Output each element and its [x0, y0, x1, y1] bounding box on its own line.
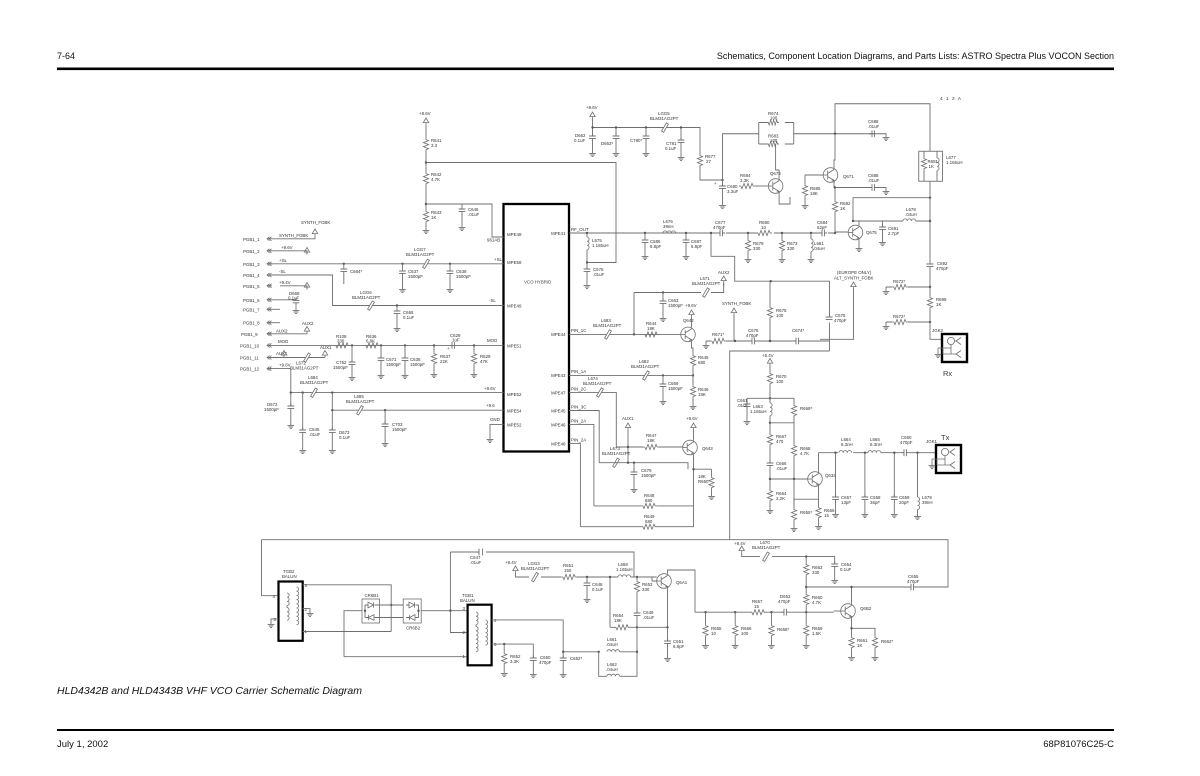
- ground (D662): [589, 151, 596, 157]
- capacitor C665: [396, 304, 398, 306]
- svg-text:+9.4V: +9.4V: [279, 280, 291, 285]
- ferrite bead L685: [357, 406, 364, 415]
- capacitor C657: [834, 452, 836, 454]
- node junction: [449, 263, 451, 265]
- wire Q633 collector to Tx row: [818, 453, 820, 472]
- svg-text:330: 330: [812, 570, 820, 575]
- svg-text:18K: 18K: [698, 392, 706, 397]
- wire R684 to Q678: [755, 185, 768, 187]
- wire Q6A1 collector right to lower row: [668, 570, 696, 612]
- transistor Q6B2: [841, 604, 856, 619]
- ground (R652): [501, 671, 508, 677]
- svg-text:D663*: D663*: [601, 141, 613, 146]
- wire oscillator top bus: [262, 540, 949, 596]
- wire diode links: [380, 605, 404, 618]
- svg-text:C674*: C674*: [792, 328, 804, 333]
- capacitor C653 series: [781, 609, 789, 616]
- resistor R629: [473, 345, 475, 352]
- transistor Q633: [808, 472, 823, 487]
- svg-text:AUX1: AUX1: [320, 345, 332, 350]
- capacitor C692 series: [927, 261, 949, 287]
- wire bias node up to R674/R683 box: [723, 134, 759, 180]
- wire TGB1 pin 5 row: [492, 643, 534, 645]
- resistor R637: [433, 345, 435, 352]
- ground (C665): [394, 326, 401, 332]
- svg-text:BLM31AG2PT: BLM31AG2PT: [631, 364, 660, 369]
- svg-text:.01uF: .01uF: [776, 466, 788, 471]
- transistor Q678: [768, 179, 783, 194]
- capacitor C658: [864, 452, 866, 454]
- wire TGB1 pin 4 to row: [492, 620, 564, 652]
- capacitor C680 polarized: [721, 179, 723, 181]
- svg-text:1500pF: 1500pF: [408, 274, 423, 279]
- capacitor C762: [351, 345, 353, 362]
- wire R677 to bias node: [700, 167, 723, 180]
- svg-text:AUX2: AUX2: [718, 270, 730, 275]
- node junction: [793, 478, 795, 480]
- transistor Q671: [823, 168, 838, 183]
- svg-text:330: 330: [337, 338, 345, 343]
- svg-text:BLM31AG2PT: BLM31AG2PT: [583, 381, 612, 386]
- node junction: [805, 555, 807, 557]
- op-amp U1 : VCO hybrid module IC: [504, 204, 570, 452]
- svg-text:MPE52: MPE52: [507, 392, 522, 397]
- node junction: [627, 446, 629, 448]
- ferrite bead L673: [613, 458, 620, 467]
- svg-text:100: 100: [776, 379, 784, 384]
- node junction: [636, 651, 638, 653]
- capacitor C703: [384, 410, 386, 424]
- svg-text:39nH: 39nH: [663, 224, 674, 229]
- node junction: [769, 422, 771, 424]
- svg-text:470pF: 470pF: [834, 318, 847, 323]
- capacitor C677 series: [717, 230, 725, 237]
- svg-text:BLM31AG2PT: BLM31AG2PT: [752, 545, 781, 550]
- node junction: [609, 576, 611, 578]
- ground (C654): [831, 578, 838, 584]
- svg-text:+9.6: +9.6: [486, 403, 495, 408]
- capacitor D663*: [615, 128, 617, 137]
- ground (D668): [293, 308, 300, 314]
- svg-text:1.165uH: 1.165uH: [592, 243, 609, 248]
- resistor R682: [832, 200, 837, 213]
- svg-text:3.3: 3.3: [431, 143, 438, 148]
- ground (C651): [664, 656, 671, 662]
- svg-text:PIN_1C: PIN_1C: [571, 328, 586, 333]
- svg-text:.04uH: .04uH: [606, 642, 618, 647]
- node junction: [734, 611, 736, 613]
- svg-text:1K: 1K: [857, 643, 862, 648]
- node junction: [770, 280, 772, 282]
- svg-text:SYNTH_FOBK: SYNTH_FOBK: [301, 220, 330, 225]
- wire L673 row: [599, 463, 688, 470]
- svg-text:3.3K: 3.3K: [740, 178, 749, 183]
- capacitor C674* series: [793, 338, 801, 345]
- inductor L678: [853, 220, 903, 222]
- ground (C703): [382, 441, 389, 447]
- svg-text:2.2K: 2.2K: [776, 496, 785, 501]
- svg-text:.01uF: .01uF: [593, 272, 605, 277]
- wire TGB2 pin 1: [303, 631, 392, 633]
- wire main lower row: [563, 651, 599, 653]
- node junction: [591, 126, 593, 128]
- svg-text:1500pF: 1500pF: [668, 303, 683, 308]
- resistor R641: [423, 138, 428, 151]
- svg-text:36pF: 36pF: [870, 500, 880, 505]
- wire R651 to L668: [577, 576, 618, 578]
- ground (R664): [767, 508, 774, 514]
- svg-text:VCO HYBRID: VCO HYBRID: [524, 280, 551, 285]
- resistor R655: [705, 612, 707, 624]
- svg-text:PGB1_3: PGB1_3: [243, 262, 260, 267]
- resistor R660: [804, 593, 809, 606]
- wire IC pin MPE46 row down to R648 line: [569, 424, 594, 506]
- node junction: [636, 626, 638, 628]
- svg-text:1500pF: 1500pF: [456, 274, 471, 279]
- capacitor C669: [662, 375, 664, 384]
- svg-text:R650: R650: [698, 479, 709, 484]
- wire box right to top rail: [794, 104, 930, 152]
- node junction: [662, 374, 664, 376]
- ground (D663*): [613, 151, 620, 157]
- svg-text:R662*: R662*: [881, 639, 893, 644]
- ground (C781): [678, 155, 685, 161]
- svg-text:BALUN: BALUN: [460, 598, 475, 603]
- wire CR6B1 left to bottom run: [344, 611, 362, 657]
- svg-text:PIN_1A: PIN_1A: [571, 369, 586, 374]
- svg-text:PIN_2C: PIN_2C: [571, 387, 586, 392]
- svg-text:PGB1_9: PGB1_9: [241, 332, 258, 337]
- node junction: [633, 333, 635, 335]
- wire middle column vertical: [633, 293, 635, 335]
- resistor R643: [423, 210, 428, 223]
- capacitor C664*: [340, 266, 347, 274]
- ground (D672): [287, 423, 294, 429]
- wire Q678 emitter: [779, 193, 790, 204]
- ground (R655*): [791, 526, 798, 532]
- svg-text:470pF: 470pF: [778, 599, 791, 604]
- wire node to R669 branch: [770, 398, 794, 423]
- wire lower output row: [695, 611, 834, 613]
- svg-text:BLM31AG2PT: BLM31AG2PT: [602, 451, 631, 456]
- svg-text:.01uF: .01uF: [309, 432, 321, 437]
- capacitor C691: [882, 221, 884, 227]
- svg-text:4 1 2 A: 4 1 2 A: [940, 96, 962, 102]
- ground (R655): [702, 643, 709, 649]
- svg-text:10: 10: [761, 225, 766, 230]
- ferrite bead L670: [763, 552, 770, 561]
- svg-text:Q671: Q671: [843, 174, 854, 179]
- inductor L663: [770, 403, 772, 416]
- svg-text:.01uF: .01uF: [643, 615, 655, 620]
- svg-text:MOD: MOD: [487, 338, 497, 343]
- node junction: [710, 232, 712, 234]
- svg-text:39nH: 39nH: [922, 500, 933, 505]
- svg-text:JGK2: JGK2: [932, 328, 944, 333]
- svg-text:100: 100: [770, 138, 778, 143]
- svg-text:4: 4: [273, 594, 276, 599]
- svg-text:PGB1_5: PGB1_5: [243, 284, 260, 289]
- svg-text:+: +: [714, 181, 717, 186]
- wire Q671 base: [805, 174, 823, 176]
- wire junction to IC pin MPE48: [426, 204, 504, 237]
- wire R642 to junction: [425, 185, 427, 210]
- wire Q678 collector up: [776, 144, 780, 179]
- ground (R650): [708, 494, 715, 500]
- svg-text:SYNTH_FOBK: SYNTH_FOBK: [722, 301, 751, 306]
- svg-text:27: 27: [706, 159, 711, 164]
- wire L661 node up through R654 row: [636, 627, 638, 652]
- wire +9.6V bus to IC pin MPE52: [291, 392, 504, 394]
- ground (R666): [815, 524, 822, 530]
- diode pair CR6B2: [403, 599, 421, 631]
- node junction: [633, 462, 635, 464]
- svg-text:+: +: [447, 346, 450, 351]
- wire Q6B2 emitter: [852, 618, 876, 636]
- node junction: [769, 340, 771, 342]
- svg-text:6.3nH: 6.3nH: [841, 442, 853, 447]
- node junction: [615, 126, 617, 128]
- capacitor C647 series: [470, 549, 483, 565]
- resistor R664: [767, 489, 772, 502]
- node junction: [627, 462, 629, 464]
- svg-text:470pF: 470pF: [746, 333, 759, 338]
- wire R654 row to C651: [637, 626, 664, 628]
- ground (C679): [631, 487, 638, 493]
- svg-text:+9.6V: +9.6V: [686, 416, 698, 421]
- svg-text:68P81076C25-C: 68P81076C25-C: [1043, 739, 1114, 750]
- svg-text:1.165uH: 1.165uH: [750, 409, 767, 414]
- svg-text:6.3nH: 6.3nH: [870, 442, 882, 447]
- capacitor C660 series: [901, 449, 909, 456]
- inductor L668: [618, 575, 631, 577]
- ground (C687): [683, 254, 690, 260]
- svg-text:-SL: -SL: [489, 298, 496, 303]
- svg-text:1500pF: 1500pF: [386, 362, 401, 367]
- svg-text:.01uF: .01uF: [470, 560, 482, 565]
- svg-text:470pF: 470pF: [900, 440, 913, 445]
- svg-text:+5.4V: +5.4V: [762, 353, 774, 358]
- svg-text:3.3K: 3.3K: [510, 659, 519, 664]
- wire CR6B2 right to TGB1: [421, 552, 467, 633]
- ground (IC GND pin): [490, 424, 504, 437]
- svg-text:C652*: C652*: [570, 656, 582, 661]
- svg-text:Rx: Rx: [943, 369, 952, 378]
- svg-text:MPE54: MPE54: [507, 409, 522, 414]
- transistor Q642: [681, 327, 696, 342]
- node junction C671: [380, 344, 382, 346]
- node junction: [598, 651, 600, 653]
- capacitor C654: [831, 561, 838, 569]
- capacitor C636: [404, 345, 406, 358]
- ground (C762): [349, 375, 356, 381]
- svg-text:Schematics, Component Location: Schematics, Component Location Diagrams,…: [717, 51, 1114, 61]
- node junction: [850, 627, 852, 629]
- resistor R663: [805, 557, 807, 563]
- node junction: [834, 186, 836, 188]
- svg-text:1500pF: 1500pF: [410, 362, 425, 367]
- capacitor C687: [685, 232, 687, 234]
- svg-text:1500pF: 1500pF: [264, 407, 279, 412]
- svg-text:150: 150: [564, 568, 572, 573]
- resistor R653: [636, 577, 638, 580]
- wire Q6A1 emitter down: [664, 588, 668, 627]
- svg-text:Q633: Q633: [825, 473, 836, 478]
- svg-text:C780*: C780*: [630, 138, 642, 143]
- ground (C680): [719, 203, 726, 209]
- svg-text:R658*: R658*: [777, 627, 789, 632]
- ground (R658*): [768, 643, 775, 649]
- svg-text:+9.6V: +9.6V: [281, 245, 293, 250]
- svg-text:MPE46: MPE46: [551, 423, 566, 428]
- resistor R684: [739, 183, 755, 188]
- capacitor C651: [667, 627, 669, 641]
- svg-text:PGB1_4: PGB1_4: [243, 273, 260, 278]
- capacitor C638: [447, 268, 454, 276]
- diode pair CR6B1: [362, 593, 380, 623]
- svg-text:.04uH: .04uH: [606, 667, 618, 672]
- svg-text:4.7K: 4.7K: [800, 451, 809, 456]
- node junction C636: [404, 344, 406, 346]
- node junction: [805, 586, 807, 588]
- node junction: [586, 232, 588, 234]
- svg-text:1K: 1K: [936, 302, 941, 307]
- svg-text:PGB1_1: PGB1_1: [243, 237, 260, 242]
- node junction: [734, 340, 736, 342]
- node junction: [929, 197, 931, 199]
- svg-text:680: 680: [698, 360, 706, 365]
- ground (C636): [402, 373, 409, 379]
- ground (C659): [891, 512, 898, 518]
- ground (R661): [848, 655, 855, 661]
- wire IC pin MPE47 row to Q643 base: [569, 392, 643, 447]
- ground (TGB2 pin 2): [303, 609, 310, 611]
- ferrite bead L683: [605, 330, 612, 339]
- svg-text:-SL: -SL: [279, 269, 286, 274]
- ground (C688): [883, 135, 890, 141]
- svg-text:MPE48: MPE48: [551, 442, 566, 447]
- node junction: [929, 220, 931, 222]
- svg-text:961AB: 961AB: [487, 238, 500, 243]
- svg-text:0.1uF: 0.1uF: [339, 435, 351, 440]
- ground (C691): [879, 240, 886, 246]
- node junction: [834, 133, 836, 135]
- wire C647 feedback line: [450, 552, 634, 577]
- svg-text:1K: 1K: [431, 215, 436, 220]
- node junction: [401, 263, 403, 265]
- svg-text:CR6B1: CR6B1: [365, 593, 380, 598]
- node junction: [692, 374, 694, 376]
- svg-text:47K: 47K: [480, 359, 488, 364]
- wire bus1 to bus2: [331, 393, 333, 411]
- svg-text:BLM31AG2PT: BLM31AG2PT: [352, 295, 381, 300]
- wire R670 to node: [769, 385, 771, 403]
- svg-text:R655*: R655*: [800, 510, 812, 515]
- node junction: [586, 576, 588, 578]
- resistor R647: [643, 444, 659, 449]
- wire +9.6V decoupling bus: [593, 119, 701, 154]
- wire C676 to C674: [757, 340, 796, 342]
- svg-text:GND: GND: [490, 417, 500, 422]
- svg-text:PGB1_6: PGB1_6: [243, 298, 260, 303]
- wire upper bias loop: [730, 281, 830, 540]
- svg-text:+9.6V: +9.6V: [484, 386, 496, 391]
- svg-text:.01uF: .01uF: [468, 212, 480, 217]
- resistor R651: [561, 574, 577, 579]
- svg-text:470pF: 470pF: [907, 579, 920, 584]
- resistor R654: [610, 577, 637, 627]
- capacitor C648: [586, 577, 588, 583]
- svg-text:22K: 22K: [440, 359, 448, 364]
- ground (C648): [584, 597, 591, 603]
- svg-text:MOD: MOD: [278, 339, 288, 344]
- svg-text:6.8pF: 6.8pF: [673, 644, 685, 649]
- resistor R657: [750, 610, 766, 615]
- resistor R672 (lower): [883, 324, 890, 330]
- svg-text:0.1uF: 0.1uF: [403, 315, 415, 320]
- svg-text:Q6A1: Q6A1: [676, 580, 688, 585]
- wire Q675 emitter to ground: [858, 240, 860, 246]
- transistor Q675: [848, 225, 863, 240]
- node junction: [692, 468, 694, 470]
- resistor R108: [334, 343, 350, 348]
- wire base row Q633: [770, 478, 808, 480]
- inductor L662 parallel loop: [599, 652, 637, 677]
- svg-text:62pF: 62pF: [817, 225, 827, 230]
- node junction: [290, 391, 292, 393]
- capacitor C676 series: [749, 338, 757, 345]
- resistor R650: [711, 469, 713, 476]
- node junction R637: [433, 344, 435, 346]
- capacitor C684 series: [819, 230, 827, 237]
- node junction: [929, 286, 931, 288]
- svg-text:R672*: R672*: [893, 314, 905, 319]
- wire R643 to ground: [425, 223, 427, 228]
- footer rule: [57, 729, 1114, 731]
- capacitor C663: [662, 291, 664, 293]
- svg-text:18K: 18K: [614, 618, 622, 623]
- capacitor C650: [532, 644, 534, 658]
- capacitor C661: [747, 398, 770, 404]
- ferrite bead LGG6: [368, 301, 375, 310]
- svg-text:.01uF: .01uF: [868, 124, 880, 129]
- transistor Q643: [683, 440, 698, 455]
- svg-text:MPE41: MPE41: [551, 231, 566, 236]
- svg-text:MPE51: MPE51: [507, 344, 522, 349]
- svg-text:1500pF: 1500pF: [392, 427, 407, 432]
- resistor R661: [849, 636, 854, 649]
- ground (C645): [299, 448, 306, 454]
- svg-text:1.165uH: 1.165uH: [946, 160, 963, 165]
- ground (JGK1): [929, 463, 936, 469]
- node junction: [331, 391, 333, 393]
- resistor R652: [503, 644, 505, 652]
- svg-text:MPE49: MPE49: [507, 304, 522, 309]
- ground (R629): [471, 372, 478, 378]
- ground (R662*): [872, 655, 879, 661]
- node junction: [666, 626, 668, 628]
- svg-text:4: 4: [494, 618, 497, 623]
- svg-text:1.5K: 1.5K: [812, 631, 821, 636]
- node junction: [769, 397, 771, 399]
- svg-text:680: 680: [645, 498, 653, 503]
- svg-text:BALUN: BALUN: [282, 574, 297, 579]
- svg-text:MPE48: MPE48: [507, 232, 522, 237]
- wire IC pin MPE45 row down: [569, 411, 599, 463]
- svg-text:1.165uH: 1.165uH: [616, 567, 633, 572]
- ground (C675): [584, 283, 591, 289]
- resistor R681 / inductor L677 tank: [919, 151, 963, 181]
